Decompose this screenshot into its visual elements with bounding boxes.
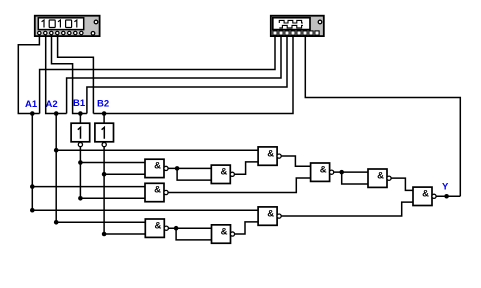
wire G7 output to G10 input2 [281,202,413,216]
wire A1 to gate G7 input1 [32,209,258,211]
wire G1 output to gate G4 [168,167,211,169]
nand gate G9 inverter [368,169,391,187]
junction A1 lower tap [30,208,35,213]
wire node B1 riser to analyzer pin3 [87,35,287,114]
wire G8 output branch to G9 input2 [342,172,368,184]
nand gate G4 inverter [211,165,234,183]
svg-text:&: & [221,226,228,237]
junction node A2 [54,111,59,116]
svg-text:A1: A1 [25,99,38,110]
junction A2 lower tap [54,220,59,225]
junction B1n lower tap [78,196,83,201]
inverter N2 (B2) [95,123,114,147]
svg-text:B2: B2 [97,99,109,110]
svg-text:&: & [154,161,161,172]
svg-text:&: & [154,185,161,196]
wire U1 pin1 to node A1 [18,35,39,114]
junction B1n upper tap [78,160,83,165]
wire G5 output to G8 input1 [281,156,310,166]
inverter N1 (B1) [71,123,90,147]
junction A2 upper tap [54,148,59,153]
junction G1 output node [175,166,180,171]
wire A1 to gate G2 input1 [32,186,145,188]
logic analyzer U2 (waveform display) [271,16,324,36]
svg-text:B1: B1 [73,98,86,109]
wire node B1 to inverter N1 input [79,114,81,124]
junction node B1 [78,111,83,116]
nand gate G3 (A2,B2n) [145,219,168,237]
nand gate G10 output Y [413,187,436,205]
svg-text:A2: A2 [46,99,58,110]
junction node B2 [102,111,107,116]
nand gate G5 [258,147,281,165]
wire analyzer pin6 feedback from node Y [305,35,460,196]
svg-text:&: & [154,220,161,231]
wire G3 output branch to G6 input2 [176,228,211,240]
svg-text:&: & [320,164,327,175]
wire G10 output node Y [436,195,460,197]
wire G4 output riser to G5 input2 [234,162,258,174]
junction A1 upper tap [30,184,35,189]
nand gate G7 [258,207,281,225]
wire column B1n from N1 output [79,147,81,199]
nand gate G6 inverter [212,225,235,243]
wire G6 output riser to G7 input2 [235,222,259,234]
junction node A1 [30,111,35,116]
svg-text:&: & [422,189,429,200]
wire A2 to gate G3 input1 [56,221,145,223]
wire A2 to gate G5 input1 [56,149,258,151]
wire B1n to gate G2 input2 [80,197,145,199]
wire G3 output to gate G6 [168,227,211,229]
nand gate G2 (A1,B1n) [145,183,168,201]
wire G9 output to G10 input1 [391,178,413,190]
junction G3 output node [174,226,179,231]
wire G8 output to gate G9 [334,171,368,173]
svg-text:&: & [267,208,274,219]
wire G2 output to G8 input2 [168,178,311,192]
wire U1 pin4 to node B2 [58,35,94,114]
wire column A1 [31,114,33,211]
nand gate G8 [311,163,334,181]
wire U1 pin2 to node A2 [46,35,67,114]
junction node Y [444,194,449,199]
wire node A2 riser to analyzer pin2 [67,35,281,114]
junction B2n lower tap [102,232,107,237]
wire B1n to gate G1 input1 [80,162,145,164]
wire node A1 riser to analyzer pin1 [40,35,275,114]
svg-text:Y: Y [442,182,449,193]
wire node B2 to analyzer pin4 [93,35,293,114]
junction B2n upper tap [102,172,107,177]
wire column B2n from N2 output [103,147,105,234]
wire B2n to gate G1 input2 [104,173,145,175]
wire B2n to gate G3 input2 [104,233,145,235]
junction G8 output node [339,170,344,175]
nand gate G1 (B1n,B2n) [145,159,168,177]
wire node B2 to inverter N2 input [103,114,105,124]
svg-text:&: & [267,148,274,159]
svg-text:&: & [377,170,384,181]
wire U1 pin3 to node B1 [52,35,87,114]
word generator U1 (pattern 10101) [35,16,100,36]
wire column A2 [55,114,57,223]
wire G1 output branch to G4 input2 [177,168,211,180]
svg-text:&: & [220,167,227,178]
